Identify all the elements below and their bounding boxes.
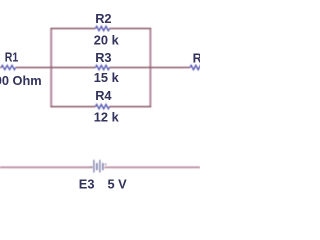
battery E3 plate short 2 bbox=[102, 163, 104, 170]
svg-text:R5: R5 bbox=[193, 51, 200, 66]
wire middle branch left bbox=[50, 67, 95, 69]
svg-text:20 k: 20 k bbox=[94, 33, 120, 48]
wire bottom branch right bbox=[110, 106, 152, 108]
left vertical bus bbox=[50, 29, 52, 107]
svg-text:R4: R4 bbox=[95, 88, 112, 103]
resistor R1 bbox=[1, 65, 15, 69]
battery E3 plate long 2 bbox=[99, 160, 101, 173]
resistor R4 bbox=[96, 104, 110, 108]
wire right bus to R5 bbox=[150, 67, 190, 69]
svg-text:5 V: 5 V bbox=[108, 176, 128, 191]
svg-text:12 k: 12 k bbox=[94, 110, 120, 125]
wire bottom branch left bbox=[50, 106, 95, 108]
resistor R2 bbox=[96, 26, 110, 30]
battery E3 plate short 1 bbox=[96, 163, 98, 170]
svg-text:100 Ohm: 100 Ohm bbox=[0, 73, 42, 88]
resistor R3 bbox=[96, 65, 110, 69]
wire battery left bbox=[0, 166, 93, 168]
wire top branch right bbox=[110, 28, 152, 30]
wire battery right bbox=[105, 166, 200, 168]
resistor R5 bbox=[190, 65, 204, 69]
svg-text:R1: R1 bbox=[5, 50, 18, 65]
svg-text:E3: E3 bbox=[79, 176, 95, 191]
svg-text:R2: R2 bbox=[95, 11, 111, 26]
svg-text:15 k: 15 k bbox=[94, 70, 120, 85]
battery E3 plate long 1 bbox=[93, 160, 95, 173]
wire R1 to left bus bbox=[16, 67, 52, 69]
battery polarity mark bbox=[105, 163, 107, 165]
wire top branch left bbox=[50, 28, 95, 30]
battery terminal dot left bbox=[91, 166, 93, 168]
svg-text:R3: R3 bbox=[95, 50, 111, 65]
wire R1 stub left bbox=[0, 67, 1, 69]
right vertical bus bbox=[149, 29, 151, 107]
wire middle branch right bbox=[110, 67, 151, 69]
